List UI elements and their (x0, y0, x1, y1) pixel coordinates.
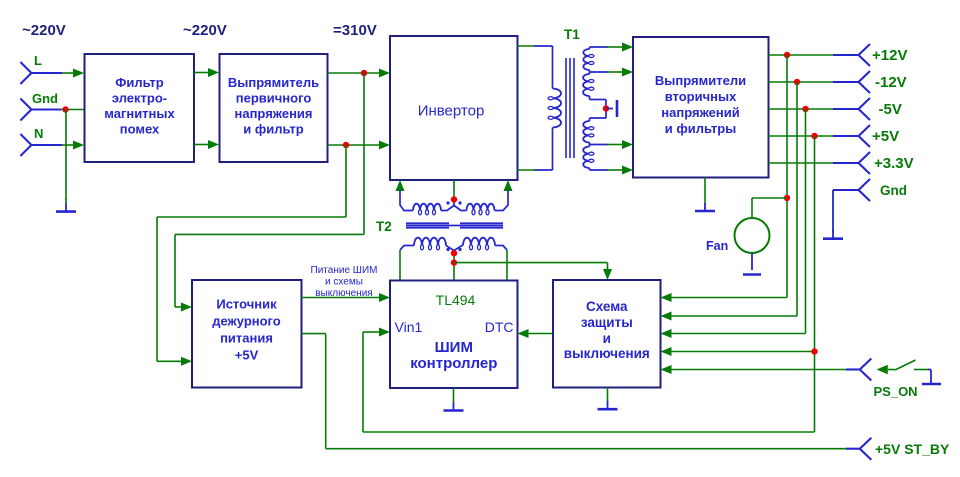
svg-text:L: L (34, 53, 42, 68)
svg-text:напряжения: напряжения (235, 106, 313, 121)
svg-text:Vin1: Vin1 (395, 319, 423, 335)
svg-text:Питание ШИМ: Питание ШИМ (311, 265, 378, 276)
svg-text:ШИМ: ШИМ (435, 339, 473, 356)
svg-text:+5V ST_BY: +5V ST_BY (875, 441, 950, 457)
svg-text:T2: T2 (376, 219, 392, 234)
svg-text:-12V: -12V (875, 74, 907, 91)
svg-text:Источник: Источник (216, 297, 277, 312)
svg-text:Инвертор: Инвертор (418, 103, 485, 120)
svg-text:и схемы: и схемы (325, 277, 363, 288)
svg-text:T1: T1 (564, 27, 580, 42)
svg-text:и фильтры: и фильтры (665, 121, 737, 136)
svg-text:~220V: ~220V (183, 22, 227, 39)
svg-text:Fan: Fan (706, 239, 728, 253)
svg-text:-5V: -5V (879, 101, 902, 118)
svg-text:помех: помех (120, 122, 160, 137)
svg-text:Выпрямитель: Выпрямитель (228, 75, 319, 90)
svg-text:PS_ON: PS_ON (874, 384, 918, 399)
svg-text:электро-: электро- (112, 91, 167, 106)
svg-text:N: N (34, 126, 43, 141)
svg-text:напряжений: напряжений (661, 105, 739, 120)
svg-text:контроллер: контроллер (410, 355, 497, 372)
svg-text:Gnd: Gnd (880, 183, 907, 198)
svg-text:и: и (603, 331, 611, 346)
svg-text:Фильтр: Фильтр (115, 75, 164, 90)
svg-text:+12V: +12V (872, 47, 907, 64)
svg-text:и фильтр: и фильтр (243, 122, 303, 137)
svg-text:магнитных: магнитных (104, 106, 175, 121)
svg-text:+3.3V: +3.3V (874, 155, 914, 172)
svg-text:выключения: выключения (564, 346, 650, 361)
svg-text:=310V: =310V (333, 22, 377, 39)
svg-text:защиты: защиты (581, 315, 633, 330)
svg-text:Gnd: Gnd (32, 91, 58, 106)
svg-text:+5V: +5V (872, 128, 899, 145)
svg-text:~220V: ~220V (22, 22, 66, 39)
svg-text:Схема: Схема (586, 299, 628, 314)
svg-text:первичного: первичного (236, 91, 312, 106)
svg-text:DTC: DTC (485, 319, 514, 335)
svg-text:Выпрямители: Выпрямители (655, 73, 746, 88)
svg-text:вторичных: вторичных (665, 89, 737, 104)
svg-text:TL494: TL494 (436, 292, 476, 308)
svg-text:+5V: +5V (235, 348, 259, 363)
svg-text:дежурного: дежурного (212, 314, 281, 329)
svg-text:питания: питания (220, 331, 273, 346)
